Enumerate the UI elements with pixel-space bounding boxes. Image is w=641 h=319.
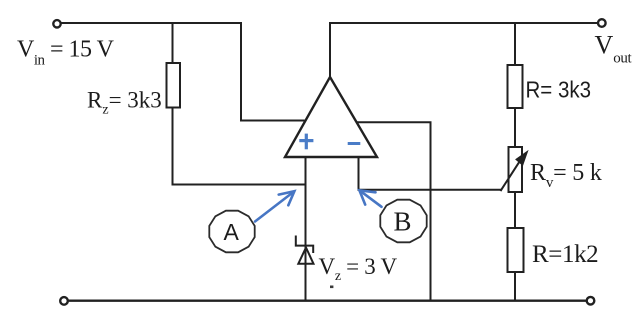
zener diode Vz (296, 237, 314, 264)
arrow A (blue callout arrow) (255, 191, 294, 221)
wire node A vertical (+ input leg down through zener to bottom rail) (305, 157, 307, 300)
wire node B vertical (- input leg) (359, 157, 502, 190)
svg-text:R=1k2: R=1k2 (532, 241, 598, 268)
stray period mark (330, 286, 333, 289)
node B callout polygon (380, 200, 426, 243)
svg-text:B: B (394, 207, 412, 237)
svg-text:Vout: Vout (595, 31, 633, 67)
wire R to Rv (514, 108, 516, 147)
wire Rv to R1k2 (514, 192, 516, 228)
arrow B (blue callout arrow) (359, 190, 381, 207)
svg-text:A: A (224, 219, 240, 245)
potentiometer wiper arrow (501, 160, 521, 190)
resistor R1k2 body (508, 228, 524, 272)
op-amp + input label (299, 134, 313, 150)
potentiometer Rv body (509, 147, 523, 192)
svg-text:Rz= 3k3: Rz= 3k3 (87, 88, 162, 118)
wire R1k2 to bottom rail (514, 272, 516, 300)
node A callout polygon (209, 211, 254, 253)
wire top rail left segment (62, 22, 242, 24)
terminal Vout (top-right open circle) (598, 19, 606, 27)
terminal bottom-left open circle (60, 297, 68, 305)
terminal bottom-right open circle (587, 297, 595, 305)
wire + input drop from top rail (241, 23, 304, 121)
wire top rail right segment (330, 22, 597, 24)
resistor Rz body (167, 63, 181, 108)
op-amp - input label (348, 142, 361, 145)
resistor R 3k3 body (508, 65, 523, 108)
svg-text:R= 3k3: R= 3k3 (526, 77, 592, 103)
wire Rz bottom to node A junction (173, 108, 306, 185)
wire bottom rail (69, 300, 587, 302)
svg-text:Vin = 15 V: Vin = 15 V (17, 37, 115, 69)
svg-text:Vz = 3 V: Vz = 3 V (319, 254, 398, 284)
terminal Vin (top-left open circle) (53, 20, 60, 27)
op-amp output wire (apex to top rail) (329, 23, 331, 77)
wire Rz top drop (172, 23, 174, 63)
svg-text:Rv= 5 k: Rv= 5 k (530, 160, 602, 191)
wire R top drop (514, 23, 516, 65)
wire - side feedback to ground rail (357, 122, 431, 300)
op-amp U1 (triangle, apex up) (285, 77, 377, 157)
